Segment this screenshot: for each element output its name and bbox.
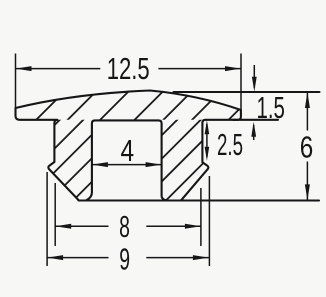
svg-text:6: 6 <box>300 130 314 165</box>
svg-text:9: 9 <box>119 241 130 276</box>
svg-text:8: 8 <box>119 209 130 244</box>
svg-text:12.5: 12.5 <box>107 51 150 86</box>
svg-text:4: 4 <box>121 133 135 168</box>
svg-text:2.5: 2.5 <box>217 127 243 162</box>
svg-text:1.5: 1.5 <box>257 90 285 125</box>
